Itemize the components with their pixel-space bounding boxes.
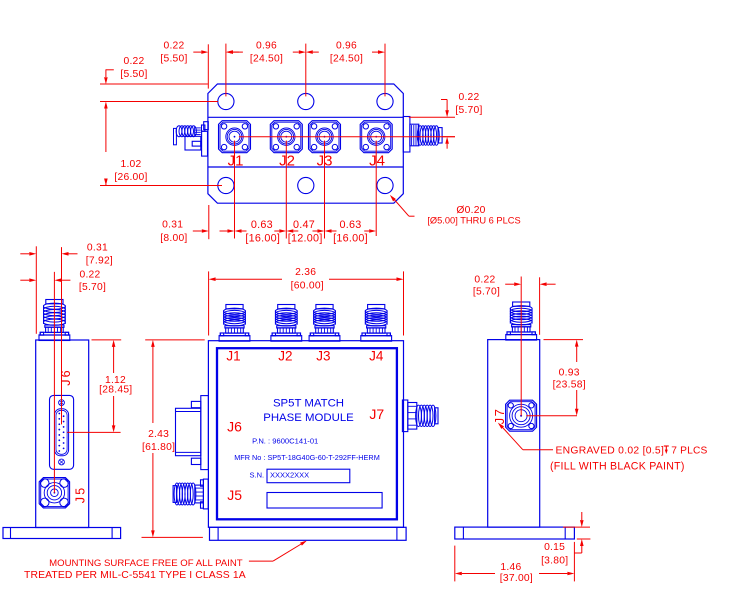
dimension 0.96 [24.50] second [306,41,385,97]
top view plate [208,84,403,203]
svg-text:J7: J7 [369,406,384,422]
svg-text:S.N. :: S.N. : [250,471,269,480]
svg-text:[7.92]: [7.92] [86,255,113,266]
svg-text:2.43: 2.43 [148,429,169,440]
J5 SMA (front view, left) [173,479,208,509]
svg-text:[12.00]: [12.00] [288,232,323,244]
SMA connector J1 (front view) [219,305,250,342]
left view base plate [3,528,121,539]
svg-text:J5: J5 [227,487,242,503]
svg-text:TREATED PER MIL-C-5541 TYPE I: TREATED PER MIL-C-5541 TYPE I CLASS 1A [24,570,246,581]
SMA connector J2 (front view) [271,305,302,342]
engraving note line 2 [550,460,685,472]
svg-text:MFR No : SP5T-18G40G-60-T-292F: MFR No : SP5T-18G40G-60-T-292FF-HERM [234,453,380,462]
front view base plate [210,527,407,540]
svg-text:J7: J7 [492,408,507,425]
svg-text:J4: J4 [369,349,384,364]
top view raised band [208,117,403,167]
svg-text:[16.00]: [16.00] [333,232,368,244]
svg-text:J2: J2 [279,153,295,170]
label J6 (front) [227,419,242,435]
S.N. box [267,469,350,483]
label J6 (left view, rotated) [59,368,73,386]
svg-text:0.93: 0.93 [559,368,580,379]
right view body [488,340,540,527]
svg-text:[28.45]: [28.45] [99,385,132,396]
svg-text:0.63: 0.63 [339,219,361,231]
J1 label (top view) [228,153,244,170]
dimension 0.63 [16.00] (J1-J2) [235,219,287,244]
dimension 0.15 [3.80] [541,512,590,567]
svg-text:1.02: 1.02 [120,159,141,170]
J6 D-sub profile (front view) [176,396,209,470]
svg-text:ENGRAVED 0.02 [0.5]: ENGRAVED 0.02 [0.5] [556,445,665,456]
svg-text:[5.50]: [5.50] [120,69,147,80]
svg-text:[24.50]: [24.50] [250,54,283,65]
front view inner panel [217,348,397,519]
J5 flange (left view) [39,478,69,508]
svg-text:[5.70]: [5.70] [455,105,482,116]
svg-text:[8.00]: [8.00] [160,233,187,244]
svg-text:0.96: 0.96 [256,41,277,52]
label J5 (front) [227,487,242,503]
right view centerlines [521,277,577,416]
dimension 0.63 [16.00] (J3-J4) [325,219,377,244]
svg-text:[26.00]: [26.00] [114,172,147,183]
svg-text:7 PLCS: 7 PLCS [671,445,707,456]
dimension 0.93 [23.58] [544,340,586,416]
label J5 (left view, rotated) [73,486,87,504]
connector centerline (top view) [239,136,455,138]
svg-text:[3.80]: [3.80] [541,556,568,567]
dimension 1.46 [37.00] [455,542,575,584]
front view body [208,341,403,528]
S.N. label [250,471,269,480]
dimension 0.22 [5.70] (right view) [473,275,556,298]
svg-text:[61.80]: [61.80] [142,442,175,453]
svg-text:0.15: 0.15 [544,542,565,553]
dimension 0.31 [8.00] [160,220,234,245]
blank box [267,493,382,509]
dimension 2.43 [61.80] [142,340,203,538]
J7 SMA (front view, right) [402,400,438,432]
dimension 1.02 [26.00] [100,106,222,186]
svg-text:0.22: 0.22 [474,275,495,286]
left view centerlines [36,246,120,492]
connector J4 flange (top view) [360,121,392,153]
right SMA connector (top view) [403,117,442,153]
J6 D-sub face (left view) [50,395,74,469]
label J7 (right view, rotated) [492,408,507,425]
J7 flange (right view) [506,400,537,431]
dimension 0.22 [5.70] (top view right) [409,92,483,149]
svg-text:0.22: 0.22 [123,56,144,67]
svg-text:[5.50]: [5.50] [160,54,187,65]
svg-text:0.22: 0.22 [163,41,184,52]
svg-text:P.N. : 9600C141-01: P.N. : 9600C141-01 [252,437,318,446]
SMA connector (left view top) [39,300,70,341]
hole diameter callout [390,195,521,226]
left view body [36,340,89,528]
svg-text:[60.00]: [60.00] [291,280,324,291]
SMA connector J3 (front view) [309,305,340,342]
left cable connector (top view) [174,122,209,156]
svg-text:[23.58]: [23.58] [553,380,586,391]
right view base plate [455,527,575,539]
svg-text:[Ø5.00] THRU 6 PLCS: [Ø5.00] THRU 6 PLCS [427,216,520,226]
svg-text:PHASE MODULE: PHASE MODULE [263,412,354,424]
svg-text:Ø0.20: Ø0.20 [456,205,485,216]
dimension 0.22 [5.50] vertical (left) [100,56,218,109]
svg-text:SP5T MATCH: SP5T MATCH [273,397,344,409]
svg-text:J6: J6 [227,419,242,435]
J3 label (top view) [317,153,333,170]
connector J3 flange (top view) [309,121,341,153]
dimension 1.12 [28.45] [92,340,205,433]
mounting holes (6x) [218,93,393,193]
label J7 (front) [369,406,384,422]
front panel labels J1-J4 [226,349,384,364]
P.N. text [252,437,318,446]
connector J1 flange (top view) [219,121,251,153]
SMA connector (right view top) [506,302,537,340]
J1-J4 extension lines down [209,141,376,240]
svg-text:J3: J3 [316,349,330,364]
svg-text:[37.00]: [37.00] [500,573,533,584]
svg-text:[16.00]: [16.00] [245,232,280,244]
svg-text:[5.70]: [5.70] [79,282,106,293]
svg-text:[24.50]: [24.50] [330,54,363,65]
SMA connector J4 (front view) [361,305,392,342]
svg-text:MOUNTING SURFACE FREE OF ALL P: MOUNTING SURFACE FREE OF ALL PAINT [49,558,243,569]
dimension 0.31 [7.92] [20,242,113,266]
dimension 2.36 [60.00] [209,267,404,336]
J4 label (top view) [369,153,385,170]
connector J2 flange (top view) [270,121,302,153]
svg-text:J4: J4 [369,153,385,170]
svg-text:0.31: 0.31 [87,242,108,253]
dimension 0.22 [5.50] horizontal [160,41,243,97]
MFR text [234,453,380,462]
svg-text:(FILL WITH BLACK PAINT): (FILL WITH BLACK PAINT) [550,460,685,472]
svg-text:J5: J5 [73,486,87,504]
svg-text:0.47: 0.47 [293,219,315,231]
mounting note leader [249,541,307,562]
svg-text:J1: J1 [226,349,240,364]
title PHASE MODULE [263,412,354,424]
svg-text:2.36: 2.36 [295,267,316,278]
mounting surface note [24,558,246,581]
svg-text:1.46: 1.46 [500,562,521,573]
engraving note line 1 [556,445,708,456]
svg-text:[5.70]: [5.70] [473,287,500,298]
svg-text:0.96: 0.96 [336,41,357,52]
engraving callout leader [498,423,553,450]
svg-text:0.22: 0.22 [79,269,100,280]
J2 label (top view) [279,153,295,170]
svg-text:0.22: 0.22 [458,92,479,103]
dimension 0.96 [24.50] first [226,41,306,97]
title SP5T MATCH [273,397,344,409]
svg-text:J1: J1 [228,153,244,170]
dimension 0.47 [12.00] (J2-J3) [286,219,324,244]
svg-text:0.63: 0.63 [251,219,273,231]
dimension 0.22 [5.70] (left view) [20,269,106,293]
svg-text:J2: J2 [278,349,292,364]
svg-text:0.31: 0.31 [162,220,183,231]
svg-text:XXXX2XXX: XXXX2XXX [270,471,309,480]
